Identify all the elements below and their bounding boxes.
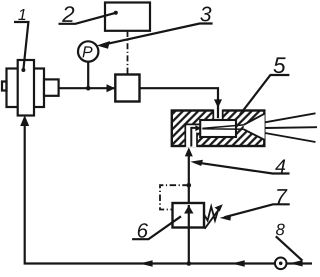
ejector inlet notch	[213, 109, 222, 120]
ejector block 5 body	[172, 111, 264, 147]
drain connection 8 circle	[275, 258, 287, 270]
label 4	[275, 160, 285, 173]
leader label 6	[132, 216, 181, 239]
pressure gauge P	[78, 41, 98, 61]
leader label 1	[14, 22, 28, 70]
node junction gauge/main line	[86, 86, 91, 91]
ejector mixing chamber	[200, 120, 236, 137]
flow arrow left (near pump)	[140, 260, 153, 266]
label 7	[277, 189, 287, 204]
arrow into pump bottom	[20, 115, 29, 126]
relief valve 6 body	[173, 203, 205, 228]
suction channel (L-shape)	[185, 124, 200, 147]
spray line middle	[265, 126, 317, 129]
leader label 4	[195, 162, 290, 173]
label 8	[276, 224, 285, 236]
diffuser cone	[244, 114, 265, 140]
pump P1 outer casing	[7, 69, 45, 108]
control unit box 2	[105, 3, 150, 31]
pump P1 right shaft step	[44, 79, 59, 95]
arrow into block bottom	[185, 147, 193, 156]
wire through valve 6 down to drain	[188, 205, 190, 264]
label 3	[200, 7, 211, 22]
node leader dot in box 2	[114, 11, 118, 15]
nozzle taper inside chamber	[202, 125, 243, 129]
arrow inside valve 6	[184, 205, 193, 213]
label 6	[138, 223, 148, 238]
label 2	[62, 6, 74, 22]
pump P1 inner body	[18, 60, 34, 116]
label P	[83, 46, 93, 57]
label 1	[18, 9, 25, 20]
wire valve3 to ejector block	[140, 88, 219, 114]
leader label 5	[240, 75, 289, 115]
wire gauge stem	[87, 63, 89, 89]
leader label 7	[225, 204, 290, 217]
spring of valve 6	[204, 207, 219, 221]
spray line bottom	[265, 133, 316, 142]
flow arrow at 8	[290, 260, 303, 266]
arrow into block top	[214, 99, 222, 108]
leader label 2	[59, 13, 116, 24]
valve 3 square	[115, 75, 139, 102]
leader label 8	[276, 236, 303, 260]
wire dash-dot pilot line	[160, 185, 189, 209]
node junction drain/valve	[187, 261, 192, 266]
wire pump outlet to valve 3	[59, 87, 116, 89]
spray line top	[265, 113, 316, 122]
arrow into valve 3	[107, 84, 116, 92]
wire dash-dot control line box2 to valve3	[127, 31, 129, 75]
flow arrow left (middle)	[232, 260, 245, 266]
leader label 3	[101, 24, 213, 46]
adjustment arrow	[205, 209, 219, 229]
wire suction line / drain line	[25, 123, 312, 264]
label 5	[274, 57, 286, 73]
wire riser valve6 to block	[188, 153, 190, 204]
suction flow arrow	[191, 128, 196, 147]
pump P1 left tab	[2, 82, 7, 91]
node junction pilot line	[187, 183, 192, 188]
